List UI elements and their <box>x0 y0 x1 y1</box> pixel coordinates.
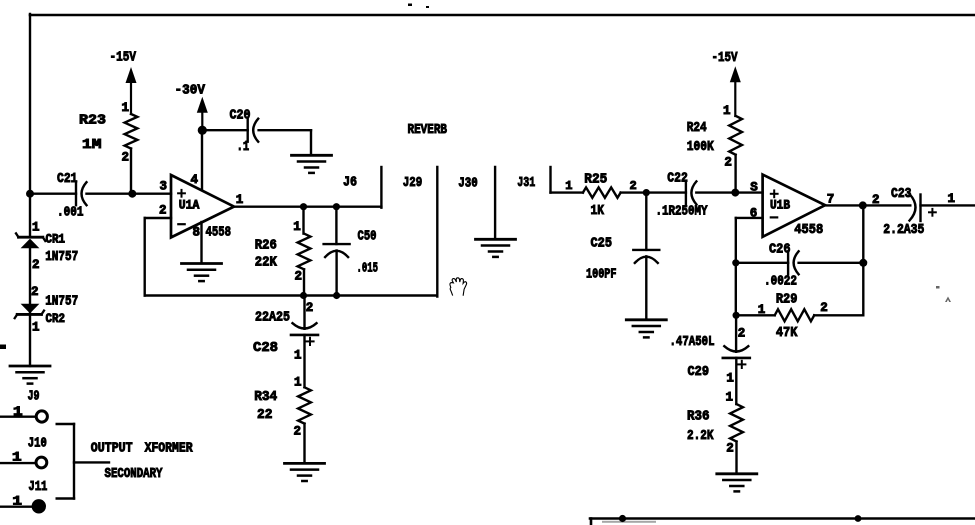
wire top rail <box>30 14 975 17</box>
svg-text:1: 1 <box>293 220 301 234</box>
svg-text:C20: C20 <box>230 108 251 124</box>
svg-text:.0022: .0022 <box>764 273 797 289</box>
wire xformer bracket <box>57 424 109 499</box>
svg-text:1: 1 <box>122 101 130 115</box>
op-amp U1B <box>763 175 826 237</box>
svg-text:R36: R36 <box>687 409 710 425</box>
node R23/C21/U1A junction <box>128 190 136 198</box>
svg-text:2: 2 <box>122 151 130 165</box>
power -15V (right) <box>712 50 741 116</box>
wire J6 stub <box>380 167 382 208</box>
wire R26 to bottom <box>303 269 305 295</box>
wire C28 to R34 <box>303 335 305 387</box>
svg-text:.47A50L: .47A50L <box>670 334 715 350</box>
node fb right/C26 <box>859 259 867 267</box>
wire J10 <box>0 462 36 464</box>
svg-text:2: 2 <box>724 155 732 169</box>
svg-text:2: 2 <box>294 424 302 438</box>
wire U1B fb left vertical <box>735 218 737 315</box>
wire C21 to node <box>87 192 133 194</box>
svg-text:2: 2 <box>159 204 167 218</box>
wire C22 to node <box>696 191 735 193</box>
svg-text:1: 1 <box>723 104 731 118</box>
artifact specks top <box>408 4 429 9</box>
svg-text:R24: R24 <box>687 120 707 136</box>
svg-text:-15V: -15V <box>110 50 137 66</box>
svg-text:1M: 1M <box>82 137 102 153</box>
svg-text:100PF: 100PF <box>586 266 617 282</box>
node feedback/R26 <box>300 292 307 299</box>
resistor R36 <box>687 404 743 444</box>
node bottom right <box>855 515 862 522</box>
svg-text:CR2: CR2 <box>46 312 66 326</box>
ground (C25) <box>626 320 666 338</box>
node feedback/C50 <box>333 292 340 299</box>
svg-text:2: 2 <box>31 285 39 299</box>
node output/C50 <box>333 203 340 210</box>
svg-text:S: S <box>750 181 758 195</box>
op-amp U1A <box>171 175 234 237</box>
svg-text:1N757: 1N757 <box>45 294 78 310</box>
capacitor C25 <box>586 235 659 282</box>
wire bottom to C28 <box>303 296 305 329</box>
svg-text:1: 1 <box>726 372 734 386</box>
svg-text:22A25: 22A25 <box>255 310 290 326</box>
capacitor C21 <box>57 171 87 221</box>
wire J31 stub <box>551 167 583 193</box>
artifact left edge <box>0 345 6 350</box>
svg-text:22: 22 <box>257 407 273 423</box>
wire bottom rail <box>590 519 975 525</box>
wire R25 to C22 <box>621 191 686 193</box>
node -30V/C20/pin4 junction <box>198 126 207 135</box>
svg-text:1: 1 <box>565 179 572 193</box>
svg-text:R29: R29 <box>776 292 798 308</box>
svg-text:C28: C28 <box>253 340 278 356</box>
svg-text:47K: 47K <box>776 325 798 341</box>
wire left rail upper <box>29 14 31 237</box>
wire U1A feedback <box>145 218 438 296</box>
resistor R24 <box>687 116 742 155</box>
svg-text:REVERB: REVERB <box>408 122 448 138</box>
svg-text:R34: R34 <box>254 389 277 405</box>
svg-text:22K: 22K <box>255 255 278 271</box>
svg-text:C26: C26 <box>769 241 791 257</box>
svg-text:.001: .001 <box>57 205 84 221</box>
wire CR2 to ground <box>29 313 31 366</box>
svg-text:100K: 100K <box>687 139 714 155</box>
svg-text:R26: R26 <box>255 238 277 254</box>
svg-text:C22: C22 <box>667 170 688 186</box>
wire C29 to R36 <box>735 358 737 404</box>
svg-text:2: 2 <box>306 301 314 315</box>
node output/C23 junction <box>859 201 867 209</box>
svg-text:J6: J6 <box>343 175 357 191</box>
op-amp U1A pin4 wire <box>201 129 203 190</box>
ground (C20) <box>292 155 332 173</box>
svg-text:R23: R23 <box>79 113 106 129</box>
svg-text:C23: C23 <box>891 186 912 202</box>
svg-text:J9: J9 <box>28 389 40 405</box>
node output/R26 <box>300 203 307 210</box>
wire R36 to ground <box>735 442 737 474</box>
capacitor C20 <box>230 108 259 156</box>
svg-text:.1R250MY: .1R250MY <box>656 204 708 220</box>
svg-text:2.2K: 2.2K <box>687 428 714 444</box>
wire R24 to node <box>734 155 736 193</box>
svg-text:J30: J30 <box>458 176 478 192</box>
capacitor C50 <box>324 229 378 277</box>
svg-text:8: 8 <box>193 226 201 240</box>
svg-text:J31: J31 <box>517 175 535 191</box>
svg-text:2: 2 <box>872 193 880 207</box>
wire C25 to ground <box>645 256 647 319</box>
svg-text:3: 3 <box>160 180 168 194</box>
wire output to C50 <box>335 207 337 244</box>
wire J29 stub <box>436 167 438 297</box>
connector J10 <box>36 457 47 468</box>
wire J11 <box>0 506 33 508</box>
svg-text:SECONDARY: SECONDARY <box>105 466 163 482</box>
svg-text:J11: J11 <box>28 479 47 495</box>
node bottom left <box>619 515 626 522</box>
wire U1B fb right vertical <box>862 205 864 315</box>
wire R23 to node <box>130 149 132 194</box>
node R25/C25 junction <box>643 189 650 196</box>
svg-text:OUTPUT: OUTPUT <box>91 441 133 457</box>
svg-text:1: 1 <box>948 192 956 206</box>
svg-text:1: 1 <box>236 193 244 207</box>
svg-text:R25: R25 <box>584 171 607 187</box>
svg-text:C25: C25 <box>591 235 613 251</box>
artifact specks right <box>936 286 951 302</box>
label OUTPUT XFORMER <box>91 441 193 457</box>
capacitor C22 <box>656 170 708 219</box>
svg-text:4558: 4558 <box>794 222 823 238</box>
svg-text:2: 2 <box>820 301 828 315</box>
svg-text:C50: C50 <box>358 229 377 245</box>
power -15V (left) <box>110 50 137 115</box>
resistor R29 <box>775 292 815 341</box>
svg-text:J29: J29 <box>403 175 423 191</box>
wire U1B output <box>825 204 910 206</box>
op-amp U1B pin6 wire <box>736 217 763 219</box>
svg-text:1: 1 <box>294 375 302 389</box>
ground (left rail) <box>10 366 50 384</box>
wire C26 right <box>799 262 864 264</box>
wire R29 to fb right <box>814 314 863 316</box>
wire R34 to ground <box>303 424 305 463</box>
wire J9 <box>0 416 36 418</box>
svg-text:U1A: U1A <box>179 198 200 213</box>
resistor R34 <box>254 387 311 423</box>
svg-text:1K: 1K <box>591 203 605 219</box>
wire fb to C29 <box>735 315 737 352</box>
svg-text:2: 2 <box>738 327 746 341</box>
ground (R36) <box>717 474 757 492</box>
node left rail junction <box>26 190 34 198</box>
svg-text:2.2A35: 2.2A35 <box>883 222 924 238</box>
connector J9 <box>36 411 47 422</box>
wire U1A output <box>234 205 381 207</box>
svg-text:1: 1 <box>32 321 40 335</box>
svg-text:2: 2 <box>295 270 303 284</box>
svg-text:.015: .015 <box>357 261 379 277</box>
connector J11 <box>33 500 45 512</box>
wire J30 stub <box>494 167 496 239</box>
resistor R25 <box>583 171 621 219</box>
svg-text:1: 1 <box>726 390 734 404</box>
svg-text:C21: C21 <box>57 171 78 187</box>
svg-text:CR1: CR1 <box>46 233 66 247</box>
svg-text:U1B: U1B <box>770 198 790 213</box>
svg-text:XFORMER: XFORMER <box>145 441 193 457</box>
svg-text:.1: .1 <box>237 139 250 155</box>
svg-text:2: 2 <box>726 442 734 456</box>
wire C23 out <box>921 204 975 206</box>
ground (J30) <box>476 239 516 257</box>
svg-text:-15V: -15V <box>712 50 738 66</box>
svg-text:2: 2 <box>630 179 637 193</box>
zener diode CR2 <box>15 304 65 326</box>
wire fb to R29 <box>736 314 775 316</box>
wire node to C25 <box>645 193 647 250</box>
capacitor C23 <box>891 186 936 221</box>
capacitor C29 <box>688 346 750 380</box>
wire C26 left <box>736 262 788 264</box>
svg-text:1: 1 <box>32 221 40 235</box>
wire C50 to bottom <box>335 251 337 296</box>
svg-text:-30V: -30V <box>175 83 206 99</box>
wire junction to C20 <box>202 129 247 131</box>
wire output to R26 <box>302 207 304 234</box>
wire C20 to ground <box>259 130 311 155</box>
wire CR1 to CR2 <box>29 248 31 305</box>
resistor R23 <box>79 113 137 154</box>
node fb left/C26 <box>732 259 739 266</box>
wire rail to C21 <box>30 192 76 194</box>
svg-text:1: 1 <box>294 349 302 363</box>
zener diode CR1 <box>16 233 65 249</box>
svg-text:J10: J10 <box>28 436 47 452</box>
node C22/R24/U1B pin5 <box>731 189 739 197</box>
resistor R26 <box>255 234 311 271</box>
svg-text:2: 2 <box>32 258 40 272</box>
svg-text:4558: 4558 <box>206 225 232 241</box>
svg-text:6: 6 <box>750 206 758 220</box>
ground (R34) <box>285 463 325 481</box>
capacitor C28 <box>253 323 318 356</box>
op-amp U1B pin5 wire <box>735 191 762 193</box>
svg-text:C29: C29 <box>688 364 710 380</box>
op-amp U1A pin8 wire <box>200 222 202 263</box>
capacitor C26 <box>764 241 799 289</box>
power -30V <box>175 83 208 132</box>
artifact smudge bottom <box>602 521 656 523</box>
node fb left/R29/C29 <box>733 312 740 319</box>
ground (U1A pin8) <box>182 264 222 282</box>
cursor hand icon <box>450 278 467 295</box>
wire node to U1A pin3 <box>132 192 171 194</box>
wire U1A pin2 <box>145 217 171 219</box>
svg-text:1N757: 1N757 <box>45 249 78 265</box>
